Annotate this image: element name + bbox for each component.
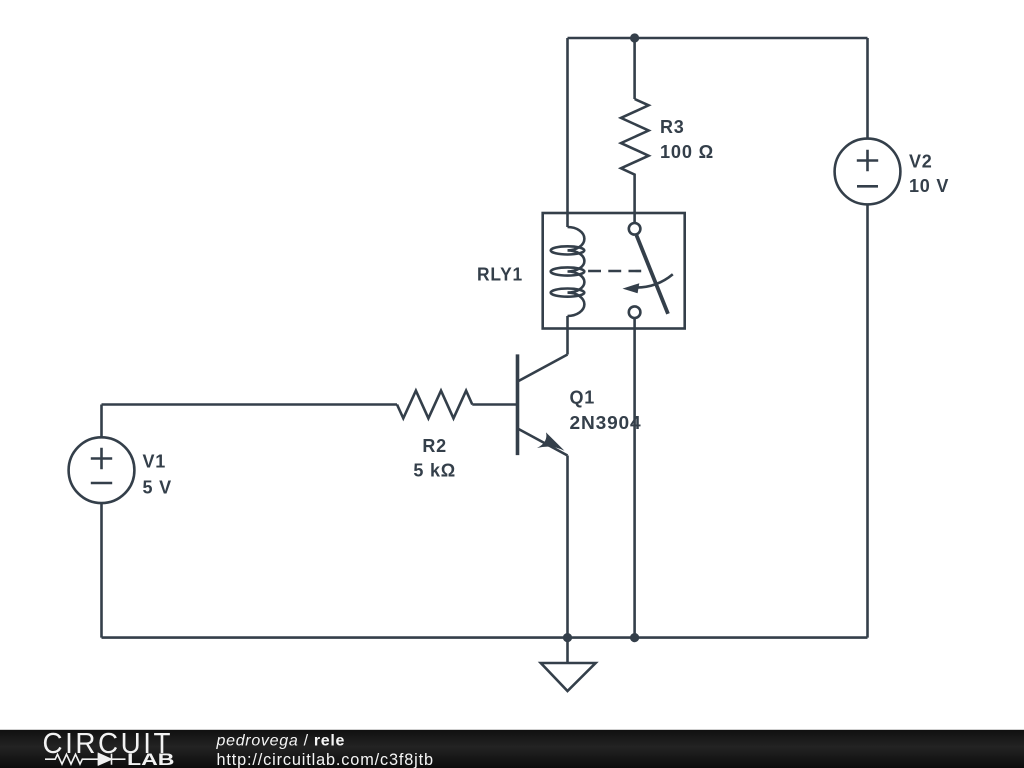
svg-text:10 V: 10 V — [909, 176, 949, 196]
relay coil loop 3 — [551, 289, 585, 297]
wire V1 to R2 — [102, 403, 398, 406]
wire base lead from R2 — [472, 403, 516, 406]
svg-text:V1: V1 — [143, 452, 167, 472]
relay coil loop 2 — [551, 267, 585, 275]
node junction top rail — [630, 33, 639, 42]
wire R3 bottom lead to relay switch — [633, 176, 636, 223]
resistor R2 — [397, 391, 472, 419]
relay switch arm — [637, 235, 669, 313]
voltage source V2 — [835, 139, 901, 205]
relay RLY1 box — [543, 213, 685, 329]
svg-text:R3: R3 — [660, 117, 685, 137]
svg-text:RLY1: RLY1 — [477, 265, 523, 285]
V1 minus sign — [91, 482, 112, 485]
V1 plus sign — [91, 448, 112, 469]
wire Q1 emitter down — [566, 456, 569, 638]
ground symbol — [566, 638, 569, 663]
footer logo resistor-diode glyph — [45, 754, 126, 765]
wire V2 top lead — [866, 38, 869, 139]
svg-text:http://circuitlab.com/c3f8jtb: http://circuitlab.com/c3f8jtb — [217, 751, 434, 768]
svg-text:Q1: Q1 — [570, 388, 596, 408]
svg-text:LAB: LAB — [127, 751, 175, 768]
relay actuation arrowhead — [623, 283, 640, 293]
node emitter to rail — [563, 633, 572, 642]
relay actuation arrow arc — [637, 274, 673, 287]
wire relay coil bottom to Q1 collector — [566, 316, 569, 355]
resistor R3 — [621, 99, 649, 176]
transistor Q1 collector diagonal — [519, 355, 568, 382]
footer bar — [0, 730, 1024, 768]
wire relay switch bottom lead — [633, 318, 636, 638]
voltage source V1 — [69, 437, 135, 503]
wire relay coil top vertical — [566, 38, 569, 227]
wire V2 bottom lead — [866, 204, 869, 637]
svg-text:5 V: 5 V — [143, 477, 172, 497]
node switch lead to rail — [630, 633, 639, 642]
relay actuation dashed link — [588, 270, 641, 273]
svg-text:R2: R2 — [422, 436, 447, 456]
V2 plus sign — [857, 150, 878, 171]
svg-text:pedrovega / rele: pedrovega / rele — [216, 732, 346, 749]
svg-text:V2: V2 — [909, 152, 933, 172]
svg-text:5 kΩ: 5 kΩ — [413, 461, 456, 481]
transistor Q1 base bar — [516, 354, 520, 455]
relay coil loop 1 — [551, 246, 585, 254]
svg-text:100 Ω: 100 Ω — [660, 142, 714, 162]
V2 minus sign — [857, 185, 878, 188]
relay switch bottom contact — [629, 306, 641, 318]
wire V1 bottom lead — [100, 503, 103, 637]
relay switch top contact — [629, 223, 641, 235]
wire V1 top lead — [100, 405, 103, 438]
wire top horizontal V+ rail — [568, 37, 868, 40]
wire bottom ground rail — [102, 636, 868, 639]
relay coil — [568, 227, 585, 316]
svg-text:2N3904: 2N3904 — [570, 413, 642, 433]
transistor Q1 emitter arrowhead — [537, 432, 565, 450]
transistor Q1 emitter diagonal — [519, 429, 568, 456]
wire R3 top lead — [633, 38, 636, 99]
